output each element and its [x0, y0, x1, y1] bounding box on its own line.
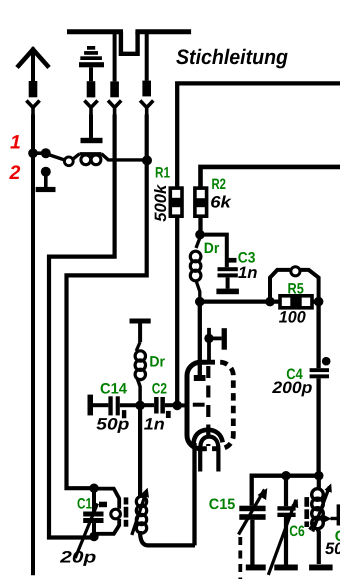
svg-text:1n: 1n — [144, 416, 165, 434]
svg-text:R1: R1 — [155, 165, 170, 182]
svg-text:500k: 500k — [152, 184, 170, 222]
svg-text:500: 500 — [325, 540, 340, 558]
svg-text:6k: 6k — [210, 193, 231, 211]
svg-text:C1: C1 — [77, 496, 92, 513]
svg-text:1n: 1n — [238, 264, 258, 282]
svg-text:200p: 200p — [271, 379, 312, 397]
svg-text:Dr: Dr — [149, 354, 165, 371]
svg-text:20p: 20p — [59, 549, 96, 567]
svg-text:Stichleitung: Stichleitung — [176, 46, 288, 69]
svg-text:C6: C6 — [289, 523, 305, 540]
svg-text:50p: 50p — [96, 416, 129, 434]
svg-text:2: 2 — [9, 162, 21, 184]
svg-text:R2: R2 — [212, 176, 227, 193]
svg-text:100: 100 — [279, 309, 307, 327]
svg-text:1: 1 — [10, 131, 21, 153]
svg-text:Dr: Dr — [204, 240, 220, 257]
svg-text:C2: C2 — [152, 381, 167, 398]
svg-text:C15: C15 — [209, 496, 236, 513]
svg-text:R5: R5 — [288, 281, 304, 298]
svg-text:C14: C14 — [100, 381, 128, 398]
